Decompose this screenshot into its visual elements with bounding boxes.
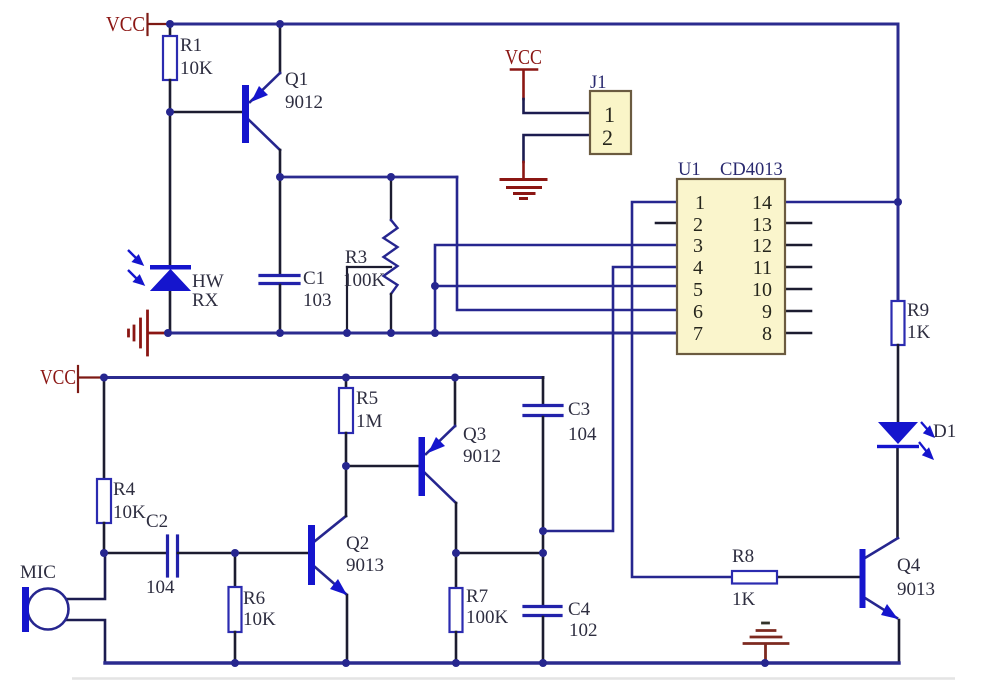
svg-text:J1: J1 <box>590 73 606 93</box>
svg-text:C2: C2 <box>146 511 168 532</box>
svg-text:HW: HW <box>192 271 224 292</box>
svg-text:1K: 1K <box>907 322 931 343</box>
svg-text:1K: 1K <box>732 589 756 610</box>
svg-text:102: 102 <box>569 620 598 641</box>
svg-text:100K: 100K <box>466 607 509 628</box>
svg-text:1M: 1M <box>356 411 383 432</box>
svg-text:C1: C1 <box>303 268 325 289</box>
svg-text:10K: 10K <box>243 609 276 630</box>
svg-text:7: 7 <box>693 323 703 345</box>
svg-text:14: 14 <box>752 192 772 214</box>
svg-text:R6: R6 <box>243 588 265 609</box>
svg-text:VCC: VCC <box>505 45 542 69</box>
svg-text:RX: RX <box>192 290 219 311</box>
svg-text:103: 103 <box>303 290 332 311</box>
svg-text:2: 2 <box>693 214 703 236</box>
svg-text:Q3: Q3 <box>463 424 486 445</box>
svg-text:13: 13 <box>752 214 772 236</box>
svg-text:5: 5 <box>693 279 703 301</box>
svg-text:4: 4 <box>693 257 703 279</box>
svg-text:C3: C3 <box>568 399 590 420</box>
svg-text:104: 104 <box>146 577 175 598</box>
svg-text:R7: R7 <box>466 586 488 607</box>
svg-text:104: 104 <box>568 424 597 445</box>
svg-text:10K: 10K <box>180 58 213 79</box>
svg-text:10K: 10K <box>113 502 146 523</box>
svg-text:VCC: VCC <box>106 12 145 36</box>
svg-text:100K: 100K <box>343 270 386 291</box>
svg-text:1: 1 <box>695 192 705 214</box>
svg-text:CD4013: CD4013 <box>720 160 783 180</box>
svg-text:R8: R8 <box>732 546 754 567</box>
svg-text:1: 1 <box>604 102 615 127</box>
svg-text:10: 10 <box>752 279 772 301</box>
svg-text:9013: 9013 <box>346 555 384 576</box>
svg-text:Q2: Q2 <box>346 533 369 554</box>
svg-text:11: 11 <box>753 257 772 279</box>
svg-text:R4: R4 <box>113 479 136 500</box>
svg-text:8: 8 <box>762 323 772 345</box>
svg-text:U1: U1 <box>678 160 701 180</box>
svg-text:9: 9 <box>762 301 772 323</box>
svg-text:Q1: Q1 <box>285 69 308 90</box>
svg-text:9012: 9012 <box>285 92 323 113</box>
svg-text:9012: 9012 <box>463 446 501 467</box>
svg-text:6: 6 <box>693 301 703 323</box>
svg-text:R1: R1 <box>180 35 202 56</box>
svg-text:D1: D1 <box>933 421 956 442</box>
svg-text:R3: R3 <box>345 247 367 268</box>
svg-text:R9: R9 <box>907 300 929 321</box>
svg-text:VCC: VCC <box>40 365 76 389</box>
svg-text:12: 12 <box>752 235 772 257</box>
svg-text:R5: R5 <box>356 388 378 409</box>
svg-text:9013: 9013 <box>897 579 935 600</box>
svg-text:C4: C4 <box>568 599 591 620</box>
svg-text:MIC: MIC <box>20 562 56 583</box>
svg-text:2: 2 <box>602 125 613 150</box>
svg-text:Q4: Q4 <box>897 555 921 576</box>
svg-text:3: 3 <box>693 235 703 257</box>
